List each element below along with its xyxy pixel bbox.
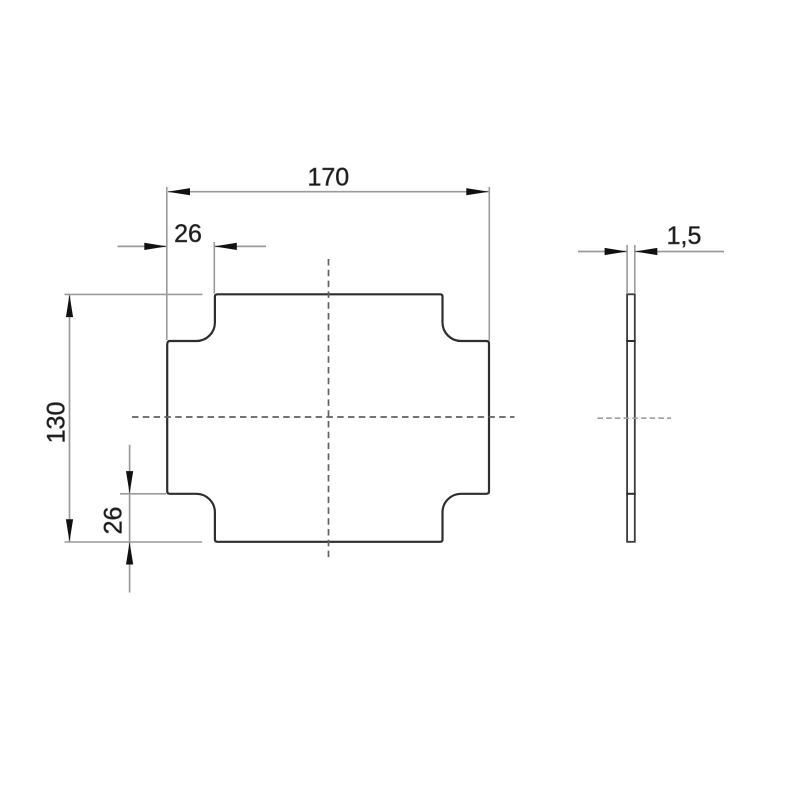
side view centerline bbox=[598, 417, 672, 419]
dimension 170: left arrow bbox=[168, 188, 191, 195]
dimension 170: extension line left bbox=[166, 187, 168, 340]
dimension 1,5: extension line right bbox=[634, 245, 636, 293]
dimension 1,5: right arrow bbox=[635, 248, 658, 255]
dimension 26 top: left arrow bbox=[144, 243, 167, 250]
dimension 1,5: extension line left bbox=[626, 245, 628, 293]
dimension 26 bottom: dimension line bbox=[129, 445, 131, 593]
dimension 130: extension line top bbox=[65, 293, 203, 295]
dimension 26 bottom: lower arrow (pointing up) bbox=[126, 542, 133, 565]
svg-text:170: 170 bbox=[307, 164, 349, 192]
dimension 26 bottom: upper arrow (pointing down) bbox=[126, 471, 133, 494]
dimension 170: dimension line bbox=[168, 191, 489, 193]
svg-text:26: 26 bbox=[100, 507, 128, 535]
svg-text:1,5: 1,5 bbox=[667, 222, 702, 250]
svg-text:26: 26 bbox=[174, 220, 202, 248]
dimension 26 top: dimension line left part bbox=[118, 245, 167, 247]
dimension 130: bottom arrow bbox=[66, 519, 73, 542]
dimension 170: right arrow bbox=[466, 188, 489, 195]
side view edge tick (top notch) bbox=[626, 340, 636, 342]
side view edge tick (bottom notch) bbox=[626, 493, 636, 495]
dimension 26 top: extension line right bbox=[213, 242, 215, 294]
dimension 130: top arrow bbox=[66, 295, 73, 318]
horizontal centerline (front view) bbox=[132, 416, 515, 418]
dimension 1,5: left arrow bbox=[605, 248, 628, 255]
dimension 26 top: dimension line right part bbox=[214, 245, 266, 247]
dimension 170: extension line right bbox=[488, 187, 490, 341]
vertical centerline (front view) bbox=[328, 259, 330, 561]
svg-text:130: 130 bbox=[43, 402, 71, 444]
dimension 1,5: dimension line right part bbox=[635, 251, 724, 253]
dimension 26 bottom: extension line top (step edge) bbox=[120, 493, 166, 495]
side view plate (right) bbox=[627, 294, 635, 542]
dimension 130: dimension line bbox=[69, 295, 71, 542]
dimension 130: extension line bottom bbox=[65, 541, 203, 543]
dimension 26 top: right arrow bbox=[214, 243, 237, 250]
plate outline (front view) bbox=[167, 294, 489, 542]
dimension 1,5: dimension line left part bbox=[578, 251, 627, 253]
